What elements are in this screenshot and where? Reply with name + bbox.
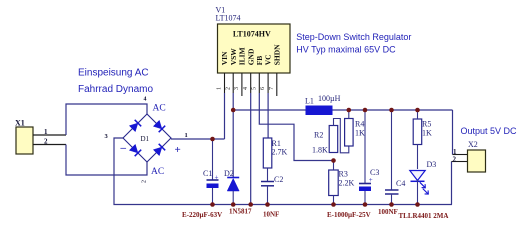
- svg-text:100µH: 100µH: [318, 94, 341, 103]
- capacitor C3 electrolytic plates: [359, 184, 371, 192]
- wire R3 bottom to ground bus: [333, 196, 335, 205]
- svg-text:D3: D3: [427, 160, 437, 169]
- pin 6 VC of V1: [267, 73, 269, 93]
- svg-text:SHDN: SHDN: [272, 44, 281, 65]
- svg-text:2: 2: [44, 138, 48, 146]
- svg-text:ILIM: ILIM: [238, 47, 247, 65]
- diode D2 (catch diode): [227, 178, 239, 192]
- svg-text:C1: C1: [203, 169, 212, 178]
- svg-text:TLLR4401 2MA: TLLR4401 2MA: [399, 212, 449, 220]
- pin 2 VSW of V1: [232, 73, 234, 93]
- svg-text:C4: C4: [396, 179, 405, 188]
- svg-text:1K: 1K: [422, 129, 432, 138]
- resistor R2 body: [329, 126, 338, 153]
- resistor R1 body: [263, 138, 272, 168]
- svg-text:2: 2: [225, 87, 231, 90]
- svg-text:R2: R2: [314, 131, 323, 140]
- junction +5V rail / C4: [389, 108, 394, 113]
- bridge diode bottom-left: [129, 144, 141, 156]
- junction VIN node / C1: [210, 137, 215, 142]
- inductor L1 body: [306, 106, 332, 115]
- wire C3 bottom lead: [364, 191, 366, 205]
- svg-text:R3: R3: [339, 170, 348, 179]
- wire R5 bottom to LED D3: [417, 145, 419, 170]
- svg-text:LT1074: LT1074: [216, 14, 241, 23]
- wire R1 bottom to C2: [267, 168, 269, 181]
- capacitor C4 plates: [385, 190, 399, 194]
- svg-text:E-220µF-63V: E-220µF-63V: [182, 211, 222, 219]
- junction ground bus / C4: [389, 202, 394, 207]
- svg-text:4: 4: [144, 97, 147, 103]
- svg-text:C2: C2: [274, 175, 283, 184]
- pin 1 VIN of V1: [224, 73, 226, 93]
- wire bridge plus corner to VIN node: [171, 138, 225, 140]
- svg-text:D1: D1: [141, 135, 150, 143]
- svg-text:VSW: VSW: [229, 48, 238, 66]
- svg-text:10NF: 10NF: [263, 211, 279, 219]
- wire bridge minus corner to ground bus (bottom rail): [114, 138, 452, 205]
- junction ground bus / C3: [363, 202, 368, 207]
- svg-text:2: 2: [142, 180, 148, 183]
- wire R5 top to +5V rail: [417, 110, 419, 119]
- wire C2 bottom to ground bus: [267, 186, 269, 205]
- svg-text:R5: R5: [422, 120, 431, 129]
- wire C4 bottom lead: [391, 194, 393, 205]
- svg-text:1N5817: 1N5817: [229, 208, 252, 216]
- pin 2 of X2: [452, 161, 468, 163]
- svg-text:X2: X2: [468, 140, 478, 149]
- svg-text:+: +: [215, 174, 219, 182]
- wire R3 top to feedback node: [333, 161, 335, 171]
- LED D3 emission arrows: [420, 182, 429, 194]
- svg-text:AC: AC: [151, 167, 164, 177]
- bridge rectifier D1 body: [123, 114, 171, 162]
- wire D2 anode to ground bus: [232, 191, 234, 205]
- pin 4 GND of V1: [250, 73, 252, 93]
- pin 1 of X2: [453, 154, 468, 156]
- svg-text:Einspeisung AC: Einspeisung AC: [78, 68, 149, 79]
- junction +5V rail / R4: [347, 108, 352, 113]
- svg-text:D2: D2: [224, 169, 234, 178]
- junction ground bus / GND pin: [248, 202, 253, 207]
- wire X1 pin1 to bridge AC top corner: [66, 104, 147, 135]
- wire link R2 top to R4 bottom: [334, 119, 349, 153]
- regulator V1 LT1074HV body: [218, 24, 291, 73]
- junction VSW/L1/D2 node: [231, 108, 236, 113]
- resistor R4 body: [345, 119, 354, 147]
- wire D3 cathode to ground bus: [417, 180, 419, 205]
- svg-text:X1: X1: [15, 119, 25, 128]
- junction ground bus / R3: [331, 202, 336, 207]
- svg-text:LT1074HV: LT1074HV: [233, 29, 271, 38]
- svg-text:4: 4: [243, 87, 249, 90]
- wire VSW pin down to catch diode D2: [232, 93, 234, 178]
- svg-text:E-1000µF-25V: E-1000µF-25V: [327, 211, 371, 219]
- bridge diode bottom-right: [153, 144, 165, 156]
- pin 3 ILIM of V1 (open): [241, 73, 243, 96]
- svg-text:Output 5V DC: Output 5V DC: [461, 126, 518, 136]
- svg-text:VC: VC: [264, 54, 273, 65]
- wire R4 top to +5V rail: [348, 110, 350, 119]
- junction feedback node R2/R3/FB: [331, 158, 336, 163]
- junction ground bus / D2: [231, 202, 236, 207]
- pin 2 of X1: [33, 144, 66, 146]
- junction ground bus / C2: [265, 202, 270, 207]
- svg-text:100NF: 100NF: [378, 208, 398, 216]
- svg-text:HV Typ maximal 65V DC: HV Typ maximal 65V DC: [296, 44, 396, 54]
- junction +5V rail / R5: [415, 108, 420, 113]
- svg-text:2.2K: 2.2K: [339, 179, 355, 188]
- connector X1 body: [16, 127, 33, 154]
- wire VSW node through L1 to +5V rail: [233, 109, 452, 111]
- LED D3 body: [410, 171, 425, 182]
- junction ground bus / C1: [210, 202, 215, 207]
- pin name labels VIN VSW ILIM GND FB VC SHDN: [220, 44, 281, 65]
- pin 1 of X1: [33, 134, 66, 136]
- wire ground bus up to X2 pin2: [451, 162, 453, 205]
- bridge diode top-left: [129, 120, 141, 132]
- svg-text:1.8K: 1.8K: [312, 146, 328, 155]
- svg-text:+: +: [175, 144, 181, 156]
- pin 7 SHDN of V1 (open): [276, 73, 278, 96]
- svg-text:2.7K: 2.7K: [272, 148, 288, 157]
- resistor R3 body: [329, 170, 339, 196]
- wire X1 pin2 to bridge AC bottom corner: [66, 145, 147, 176]
- svg-text:+: +: [369, 176, 373, 184]
- svg-text:3: 3: [234, 87, 240, 90]
- wire VIN pin down to input node: [224, 93, 226, 139]
- svg-text:1K: 1K: [355, 129, 365, 138]
- svg-text:1: 1: [185, 132, 188, 139]
- svg-text:VIN: VIN: [220, 51, 229, 65]
- wire C4 top lead: [391, 110, 393, 190]
- svg-text:AC: AC: [153, 104, 166, 114]
- wire GND pin down to ground bus: [250, 93, 252, 205]
- resistor R5 body: [413, 119, 422, 145]
- svg-text:1: 1: [217, 87, 223, 90]
- wire +5V rail down to X2 pin1: [452, 110, 454, 155]
- svg-text:6: 6: [260, 87, 266, 90]
- svg-text:2: 2: [453, 156, 457, 164]
- svg-text:Fahrrad Dynamo: Fahrrad Dynamo: [78, 84, 153, 95]
- svg-text:1: 1: [44, 128, 48, 136]
- pin number labels 1-7 of V1: [217, 87, 275, 90]
- svg-text:–: –: [120, 142, 127, 154]
- svg-text:R4: R4: [355, 120, 364, 129]
- svg-text:Step-Down Switch Regulator: Step-Down Switch Regulator: [296, 32, 411, 42]
- wire C1 bottom lead: [212, 188, 214, 205]
- junction +5V rail / C3: [363, 108, 368, 113]
- pin 5 FB of V1: [258, 73, 260, 93]
- junction ground bus / D3: [415, 202, 420, 207]
- svg-text:L1: L1: [305, 97, 314, 106]
- wire C1 top lead: [212, 139, 214, 180]
- svg-text:5: 5: [251, 87, 257, 90]
- connector X2 body: [468, 150, 486, 172]
- svg-text:FB: FB: [255, 56, 264, 66]
- wire C3 top lead: [364, 110, 366, 184]
- wire FB pin to feedback divider node: [259, 93, 333, 161]
- svg-text:7: 7: [269, 87, 275, 90]
- wire VC pin down to compensation R1: [267, 93, 269, 138]
- capacitor C1 electrolytic plates: [207, 180, 219, 188]
- capacitor C2 plates: [261, 182, 274, 186]
- bridge diode top-right: [153, 120, 165, 132]
